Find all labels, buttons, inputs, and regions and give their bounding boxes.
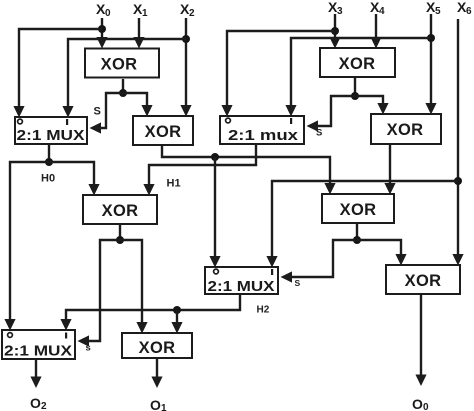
input X6 label — [457, 0, 472, 17]
mux M1 — [15, 117, 87, 144]
svg-text:H0: H0 — [41, 173, 55, 185]
svg-text:2: 2 — [41, 401, 47, 411]
M4 input-1 marker — [65, 333, 67, 339]
wire U6 output to node — [356, 223, 358, 240]
wire branch X6 to MUX M3 input 1 — [266, 181, 458, 268]
input X4 label — [370, 0, 385, 17]
svg-text:1: 1 — [142, 8, 148, 19]
node U5 output — [116, 236, 124, 244]
wire U5 output to XOR U8 — [120, 240, 148, 334]
svg-text:4: 4 — [379, 6, 385, 17]
wire X6 down to XOR U7 — [452, 19, 463, 266]
wire U4 output to XOR U6 — [384, 145, 395, 195]
svg-text:S: S — [295, 278, 301, 288]
wire M3 output H2 to MUX M4 input 1 — [60, 294, 240, 331]
wire U6 output to MUX M3 select S — [281, 240, 358, 283]
svg-text:H1: H1 — [167, 178, 181, 190]
wire U1 output to XOR U2 — [123, 93, 153, 117]
input X1 label — [133, 1, 148, 19]
wire branch X5 to MUX M2 input 1 — [285, 38, 431, 117]
node on X3 wire — [331, 27, 339, 35]
node U1 output — [119, 89, 127, 97]
XOR gate U5 — [83, 195, 157, 224]
svg-text:2:1 MUX: 2:1 MUX — [4, 343, 72, 360]
wire U5 output to node — [119, 224, 121, 240]
svg-text:5: 5 — [435, 6, 441, 17]
svg-text:H2: H2 — [257, 305, 270, 316]
wire H0 branch to XOR U5 — [49, 162, 100, 196]
svg-text:XOR: XOR — [405, 272, 442, 290]
label H2 — [257, 305, 270, 316]
wire U6 output to XOR U7 — [357, 240, 407, 266]
mux M3 — [205, 267, 278, 295]
node H0 — [45, 158, 53, 166]
svg-text:S: S — [316, 128, 322, 139]
wire tap down to XOR U8 — [171, 310, 182, 334]
wire M4 output to O2 — [30, 359, 41, 388]
wire U3 output to node — [354, 77, 356, 96]
XOR gate U6 — [322, 194, 394, 223]
XOR gate U8 — [122, 333, 192, 358]
wire U3 output to XOR U4 — [355, 96, 389, 115]
M2 input-1 marker — [290, 118, 292, 124]
output O1 label — [150, 397, 167, 411]
wire X3 down to XOR U3 — [329, 14, 340, 49]
svg-text:XOR: XOR — [339, 55, 376, 73]
wire U3 output to MUX M2 select S — [307, 96, 356, 132]
wire H0 branch to MUX M4 input 0 — [4, 162, 49, 331]
input X0 label — [96, 1, 111, 19]
svg-text:O: O — [412, 396, 423, 411]
wire tap down to MUX M3 input 0 — [209, 157, 220, 268]
input X5 label — [426, 0, 441, 17]
wire M2 output H1 to XOR U5 — [143, 144, 256, 196]
mux M2 — [220, 116, 304, 144]
wire X4 down to XOR U3 — [370, 14, 381, 49]
node U2 output tap — [211, 153, 219, 161]
svg-text:XOR: XOR — [102, 202, 139, 220]
node on X6 wire — [454, 177, 462, 185]
label H0 — [41, 173, 55, 185]
svg-text:s: s — [86, 343, 91, 354]
wire branch X0 to MUX M1 input 0 — [13, 29, 102, 118]
wire X2 down to XOR U2 — [180, 18, 191, 117]
node on X5 wire — [427, 34, 435, 42]
wire X0 down to XOR U1 — [96, 18, 107, 49]
svg-text:6: 6 — [466, 6, 472, 17]
label S of M1 — [94, 106, 101, 118]
svg-text:2:1 MUX: 2:1 MUX — [208, 278, 275, 295]
wire U1 output to MUX M1 select S — [90, 93, 124, 134]
output O2 label — [30, 395, 47, 411]
XOR gate U3 — [320, 48, 395, 77]
svg-text:S: S — [94, 106, 101, 118]
input X2 label — [180, 1, 195, 19]
mux M4 — [2, 330, 75, 360]
label S of M3 — [295, 278, 301, 288]
M1 input-1 marker — [66, 119, 68, 125]
M4 input-0 marker — [8, 333, 13, 338]
svg-text:XOR: XOR — [387, 121, 424, 139]
svg-text:2:1 MUX: 2:1 MUX — [17, 127, 85, 144]
label s of M4 — [86, 343, 91, 354]
input X3 label — [328, 0, 343, 17]
wire U8 output to O1 — [151, 358, 162, 388]
svg-text:3: 3 — [337, 6, 343, 17]
svg-text:O: O — [30, 395, 41, 411]
wire M1 output H0 — [48, 144, 50, 162]
XOR gate U7 — [386, 265, 460, 294]
XOR gate U2 — [133, 116, 193, 145]
XOR gate U1 — [85, 49, 159, 78]
M3 input-1 marker — [271, 269, 273, 275]
wire U5 output to MUX M4 select s — [78, 240, 121, 347]
wire U1 output to node — [122, 79, 124, 93]
svg-text:XOR: XOR — [340, 201, 377, 219]
svg-text:0: 0 — [423, 402, 429, 411]
wire X5 down to XOR U4 — [425, 14, 436, 115]
svg-text:XOR: XOR — [101, 56, 138, 74]
node U3 output — [351, 92, 359, 100]
node U6 output — [353, 236, 361, 244]
svg-text:2: 2 — [189, 8, 195, 19]
XOR gate U4 — [371, 114, 441, 144]
M1 input-0 marker — [18, 119, 23, 124]
wire X1 down to XOR U1 — [133, 18, 144, 49]
svg-text:XOR: XOR — [145, 123, 182, 141]
svg-text:1: 1 — [161, 403, 167, 411]
M2 input-0 marker — [226, 118, 231, 123]
wire branch X2 to MUX M1 input 1 — [62, 39, 186, 118]
node H2 tap — [173, 306, 181, 314]
label H1 — [167, 178, 181, 190]
node on X0 wire — [98, 25, 106, 33]
wire U7 output to O0 — [415, 294, 426, 386]
svg-text:2:1 mux: 2:1 mux — [228, 127, 299, 144]
svg-text:O: O — [150, 397, 161, 411]
svg-text:XOR: XOR — [139, 339, 176, 357]
wire U2 output to XOR U6 — [162, 145, 336, 195]
M3 input-0 marker — [214, 269, 219, 274]
output O0 label — [412, 396, 429, 411]
svg-text:0: 0 — [105, 8, 111, 19]
wire branch X3 to MUX M2 input 0 — [221, 31, 335, 117]
label S of M2 — [316, 128, 322, 139]
node on X2 wire — [182, 35, 190, 43]
